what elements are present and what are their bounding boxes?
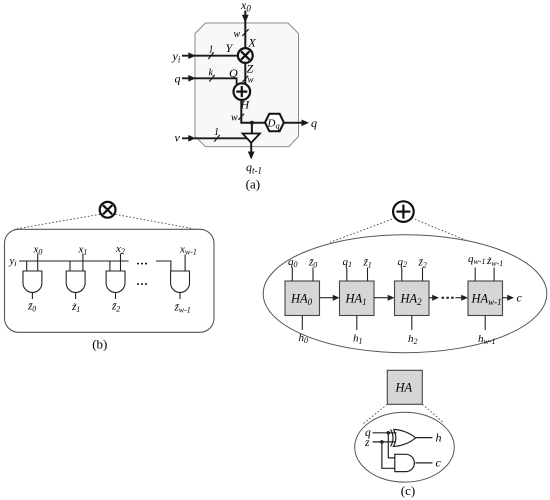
- bus slash 1 (v wire): [214, 135, 219, 142]
- wire h2 out: [411, 316, 413, 331]
- junction dot q: [387, 431, 391, 435]
- arrowhead yi: [188, 52, 196, 59]
- dotted zoom line right (c): [412, 218, 468, 241]
- branch z to AND: [382, 442, 395, 468]
- wire q2 in: [401, 268, 403, 282]
- wire h0 out: [301, 316, 303, 331]
- arrowhead q: [188, 75, 196, 82]
- wire z1 in: [367, 268, 369, 282]
- arrowhead qt-1: [248, 152, 255, 160]
- wire h1 out: [356, 316, 358, 331]
- dotted zoom line left (b): [14, 214, 100, 229]
- wire xw-1 (b): [184, 255, 186, 272]
- wire q (gate): [373, 432, 397, 434]
- big ellipse (c): [263, 235, 547, 353]
- wire H (adder down and right to Dq): [241, 100, 265, 123]
- AND gate b2: [106, 271, 125, 292]
- arrowhead x0: [242, 15, 249, 23]
- wire x0 (b): [37, 254, 39, 272]
- branch q to AND: [388, 433, 395, 458]
- bus slash w (Z wire): [242, 76, 248, 82]
- wire qw-1 in: [474, 268, 476, 282]
- wire Z (mult to adder): [244, 63, 246, 84]
- svg-text:yi: yi: [172, 49, 181, 65]
- carry arrow dots-w1: [456, 297, 465, 299]
- wire v input: [182, 137, 247, 139]
- svg-text:k: k: [209, 68, 214, 79]
- dots carry chain: [442, 297, 457, 299]
- carry arrow 1-2: [374, 297, 391, 299]
- carry arrow 2-dots: [429, 297, 435, 299]
- wire x0 input: [244, 11, 246, 49]
- AND gate b0 input tap: [26, 261, 28, 271]
- wire junction to buffer: [251, 123, 253, 134]
- svg-text:q: q: [311, 116, 317, 130]
- wire h out: [416, 437, 433, 439]
- HA2 box: [395, 281, 430, 316]
- bus slash w (x0 wire): [242, 29, 248, 36]
- svg-text:v: v: [175, 131, 181, 145]
- AND gate b3: [171, 271, 190, 292]
- svg-text:w: w: [231, 113, 238, 124]
- PE block outline (chamfered octagon): [195, 23, 299, 147]
- dotted zoom line left (HA): [364, 404, 388, 423]
- AND gate: [395, 454, 415, 471]
- carry out arrow c: [503, 297, 511, 299]
- wire z (gate): [373, 441, 396, 443]
- HA0 box: [285, 281, 320, 316]
- wire q input: [182, 78, 237, 84]
- wire x1 (b): [82, 254, 84, 272]
- dotted zoom line right (HA): [422, 404, 443, 422]
- dotted zoom line left (c): [330, 218, 395, 242]
- arrowhead v: [188, 135, 196, 142]
- AND gate b1 input tap: [69, 261, 71, 271]
- svg-text:...: ...: [137, 274, 149, 288]
- svg-text:Q: Q: [229, 66, 238, 80]
- svg-text:c: c: [436, 456, 442, 470]
- junction dot z: [380, 440, 384, 444]
- rounded box (b): [5, 229, 215, 332]
- wire z2 out: [115, 293, 117, 300]
- AND gate b0: [23, 271, 42, 292]
- wire z2 in: [422, 268, 424, 282]
- svg-text:c: c: [517, 291, 523, 305]
- wire zw-1 out: [179, 293, 181, 300]
- wire q output: [284, 122, 306, 124]
- XOR gate: [391, 429, 416, 446]
- svg-text:X: X: [248, 36, 257, 50]
- multiplier circle (b): [100, 202, 116, 218]
- register hexagon Dq: [265, 114, 284, 131]
- svg-text:w: w: [248, 75, 254, 85]
- adder circle (a): [234, 83, 251, 100]
- bus slash k (q wire): [209, 75, 214, 82]
- wire q0 in: [291, 268, 293, 282]
- junction dot: [250, 121, 254, 125]
- bus yi segment 2: [156, 261, 171, 271]
- svg-text:Z: Z: [247, 62, 254, 76]
- wire z0 out: [31, 293, 33, 300]
- wire z0 in: [312, 268, 314, 282]
- AND gate b1: [66, 271, 85, 292]
- bus slash w (H wire): [238, 114, 244, 120]
- wire q1 in: [346, 268, 348, 282]
- dotted zoom line right (b): [115, 214, 196, 229]
- wire yi input: [182, 55, 238, 57]
- adder circle (c): [393, 201, 414, 222]
- svg-text:w: w: [234, 29, 241, 40]
- wire c out: [415, 462, 432, 464]
- svg-text:z: z: [364, 437, 370, 449]
- bus slash 1 (yi wire): [208, 52, 213, 59]
- HA detail box: [387, 370, 422, 404]
- wire x2 (b): [120, 254, 122, 272]
- svg-text:(c): (c): [401, 483, 415, 498]
- wire z1 out: [75, 293, 77, 300]
- svg-text:HA: HA: [395, 381, 413, 395]
- carry arrow 0-1: [320, 297, 336, 299]
- svg-text:h: h: [436, 431, 442, 445]
- multiplier circle (a): [238, 48, 253, 63]
- svg-text:(a): (a): [246, 177, 260, 192]
- small ellipse (c): [355, 412, 455, 482]
- HAw-1 box: [468, 281, 503, 316]
- bus yi segment 1: [19, 260, 129, 262]
- svg-text:...: ...: [137, 254, 149, 268]
- svg-text:qt-1: qt-1: [246, 160, 262, 176]
- svg-text:1: 1: [214, 127, 219, 138]
- arrowhead q output: [302, 120, 310, 127]
- wire hw-1 out: [484, 316, 486, 331]
- wire qt-1 output: [250, 143, 252, 156]
- wire zw-1 in: [493, 268, 495, 282]
- tri-state buffer triangle: [243, 134, 260, 143]
- svg-text:1: 1: [209, 45, 214, 56]
- svg-text:q: q: [175, 72, 181, 86]
- AND gate b2 input tap: [109, 261, 111, 271]
- HA1 box: [340, 281, 375, 316]
- svg-text:(b): (b): [92, 337, 107, 352]
